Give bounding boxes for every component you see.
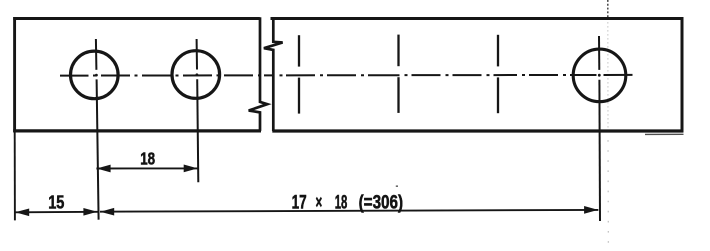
svg-text:×: × <box>316 191 323 213</box>
svg-text:18: 18 <box>140 148 155 168</box>
svg-text:15: 15 <box>48 192 64 212</box>
svg-text:17: 17 <box>292 191 307 213</box>
svg-text:(=306): (=306) <box>359 191 404 213</box>
svg-text:18: 18 <box>335 191 348 213</box>
